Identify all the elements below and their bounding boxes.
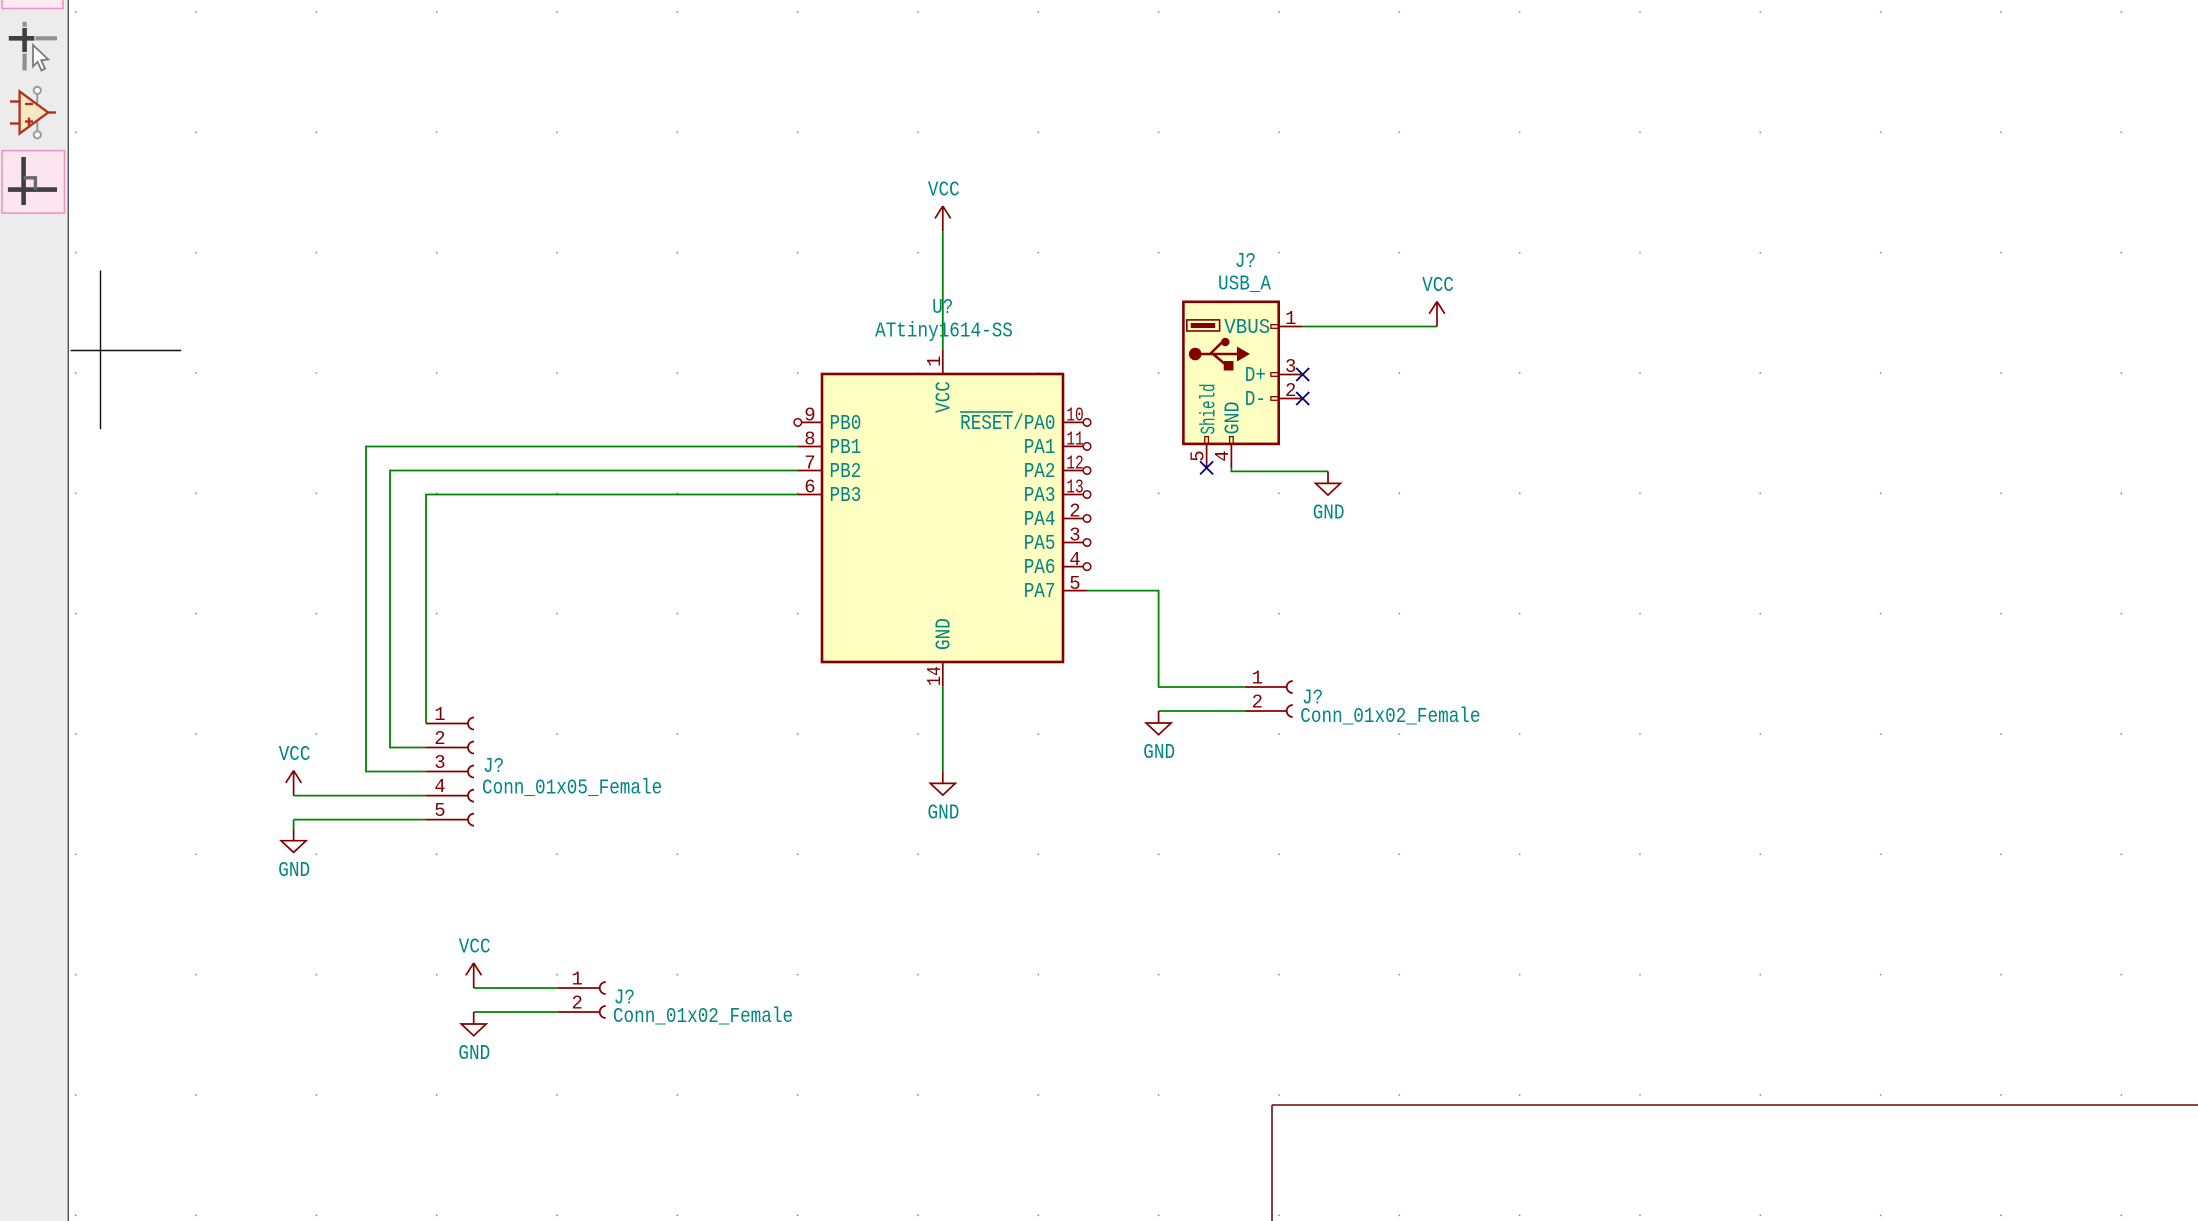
svg-text:5: 5 bbox=[1069, 573, 1080, 595]
svg-text:GND: GND bbox=[1143, 741, 1175, 765]
svg-text:VCC: VCC bbox=[1422, 274, 1454, 298]
svg-text:J?: J? bbox=[483, 755, 504, 779]
svg-text:GND: GND bbox=[1313, 502, 1345, 526]
svg-text:Conn_01x02_Female: Conn_01x02_Female bbox=[613, 1005, 793, 1029]
svg-text:PA4: PA4 bbox=[1024, 508, 1056, 532]
svg-text:3: 3 bbox=[1285, 356, 1296, 378]
svg-text:PA1: PA1 bbox=[1024, 436, 1056, 460]
svg-text:1: 1 bbox=[434, 704, 445, 726]
svg-text:PB0: PB0 bbox=[830, 412, 862, 436]
svg-text:2: 2 bbox=[1285, 380, 1296, 402]
svg-text:GND: GND bbox=[932, 618, 956, 650]
svg-text:VCC: VCC bbox=[932, 381, 956, 413]
svg-text:4: 4 bbox=[1069, 549, 1080, 571]
svg-text:PA3: PA3 bbox=[1024, 484, 1056, 508]
svg-text:2: 2 bbox=[1252, 692, 1263, 714]
svg-text:4: 4 bbox=[1212, 450, 1234, 461]
svg-text:D+: D+ bbox=[1245, 364, 1266, 388]
svg-text:VBUS: VBUS bbox=[1224, 316, 1270, 340]
svg-text:RESET/PA0: RESET/PA0 bbox=[960, 412, 1055, 436]
svg-text:USB_A: USB_A bbox=[1218, 272, 1271, 296]
svg-text:14: 14 bbox=[924, 666, 946, 686]
svg-text:GND: GND bbox=[278, 859, 310, 883]
svg-text:10: 10 bbox=[1066, 405, 1084, 427]
svg-text:Conn_01x05_Female: Conn_01x05_Female bbox=[482, 777, 662, 801]
svg-text:GND: GND bbox=[458, 1042, 490, 1066]
svg-text:4: 4 bbox=[434, 776, 445, 798]
svg-text:2: 2 bbox=[434, 728, 445, 750]
svg-text:PB3: PB3 bbox=[830, 484, 862, 508]
svg-text:6: 6 bbox=[804, 477, 815, 499]
svg-text:GND: GND bbox=[1222, 402, 1246, 435]
svg-text:PB2: PB2 bbox=[830, 460, 862, 484]
svg-text:8: 8 bbox=[804, 429, 815, 451]
svg-text:Shield: Shield bbox=[1198, 384, 1222, 435]
svg-text:Conn_01x02_Female: Conn_01x02_Female bbox=[1300, 705, 1480, 729]
svg-text:D-: D- bbox=[1245, 388, 1266, 412]
svg-text:1: 1 bbox=[1252, 668, 1263, 690]
svg-text:5: 5 bbox=[434, 800, 445, 822]
svg-text:2: 2 bbox=[1069, 501, 1080, 523]
svg-text:ATtiny1614-SS: ATtiny1614-SS bbox=[875, 319, 1013, 343]
svg-text:GND: GND bbox=[928, 802, 960, 826]
svg-text:5: 5 bbox=[1187, 450, 1209, 461]
svg-text:J?: J? bbox=[1235, 250, 1256, 274]
svg-text:1: 1 bbox=[924, 356, 946, 367]
svg-text:PA5: PA5 bbox=[1024, 532, 1056, 556]
svg-text:VCC: VCC bbox=[928, 179, 960, 203]
svg-text:1: 1 bbox=[571, 969, 582, 991]
svg-text:11: 11 bbox=[1066, 429, 1084, 451]
svg-text:VCC: VCC bbox=[459, 936, 491, 960]
svg-text:12: 12 bbox=[1066, 453, 1084, 475]
svg-text:PA6: PA6 bbox=[1024, 556, 1056, 580]
svg-text:1: 1 bbox=[1285, 308, 1296, 330]
svg-text:U?: U? bbox=[932, 296, 953, 320]
svg-text:3: 3 bbox=[1069, 525, 1080, 547]
svg-text:2: 2 bbox=[571, 993, 582, 1015]
svg-text:7: 7 bbox=[804, 453, 815, 475]
svg-text:3: 3 bbox=[434, 752, 445, 774]
svg-text:PB1: PB1 bbox=[830, 436, 862, 460]
svg-text:PA7: PA7 bbox=[1024, 580, 1056, 604]
svg-text:13: 13 bbox=[1066, 477, 1084, 499]
svg-text:PA2: PA2 bbox=[1024, 460, 1056, 484]
svg-text:9: 9 bbox=[804, 405, 815, 427]
svg-text:VCC: VCC bbox=[279, 743, 311, 767]
